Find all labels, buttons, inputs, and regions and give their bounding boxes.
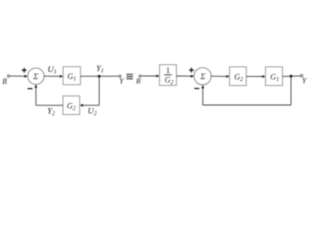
block 1/G2 — [160, 65, 177, 86]
node Y (right diagram output terminal) — [300, 75, 308, 86]
wire feedback into G2 — [80, 104, 99, 107]
node R (left diagram input terminal) — [1, 75, 9, 86]
block G1 (left diagram) — [63, 67, 80, 85]
wire feedback vertical from junction — [98, 76, 100, 105]
summer (sigma) left diagram — [28, 68, 44, 84]
equivalence symbol — [126, 74, 132, 79]
wire R to summer — [10, 75, 28, 78]
node Y (left diagram output terminal) — [119, 75, 125, 85]
wire 1/G2 to right summer — [176, 75, 194, 78]
block G2 (right diagram) — [230, 67, 247, 86]
svg-text:R: R — [1, 77, 7, 86]
wire G2 to G1 (right diagram) — [246, 75, 265, 78]
svg-text:R: R — [135, 76, 141, 85]
minus sign at left summer — [28, 88, 33, 90]
summer (sigma) right diagram — [194, 68, 211, 85]
wire G1 to Y terminal (right diagram) — [283, 75, 301, 78]
block G1 (right diagram) — [266, 67, 283, 86]
wire summer to G1 — [44, 75, 63, 78]
svg-text:Σ: Σ — [32, 71, 38, 81]
wire feedback (right diagram) — [201, 76, 291, 105]
node R (right diagram input terminal) — [135, 75, 141, 85]
wire R to block 1/G2 — [141, 75, 159, 78]
svg-text:Σ: Σ — [199, 71, 205, 81]
svg-text:1: 1 — [166, 66, 170, 75]
wire summer to G2 (right diagram) — [211, 75, 229, 78]
junction dot (right diagram) — [290, 75, 293, 78]
wire G2 back to summer — [35, 84, 63, 105]
plus sign at right summer — [189, 68, 194, 73]
minus sign at right summer — [194, 88, 199, 90]
wire G1 to Y terminal — [80, 75, 118, 77]
junction dot at Y1 — [98, 75, 101, 78]
block G2 (left diagram) — [63, 96, 80, 115]
plus sign at summer U1 — [22, 68, 27, 73]
